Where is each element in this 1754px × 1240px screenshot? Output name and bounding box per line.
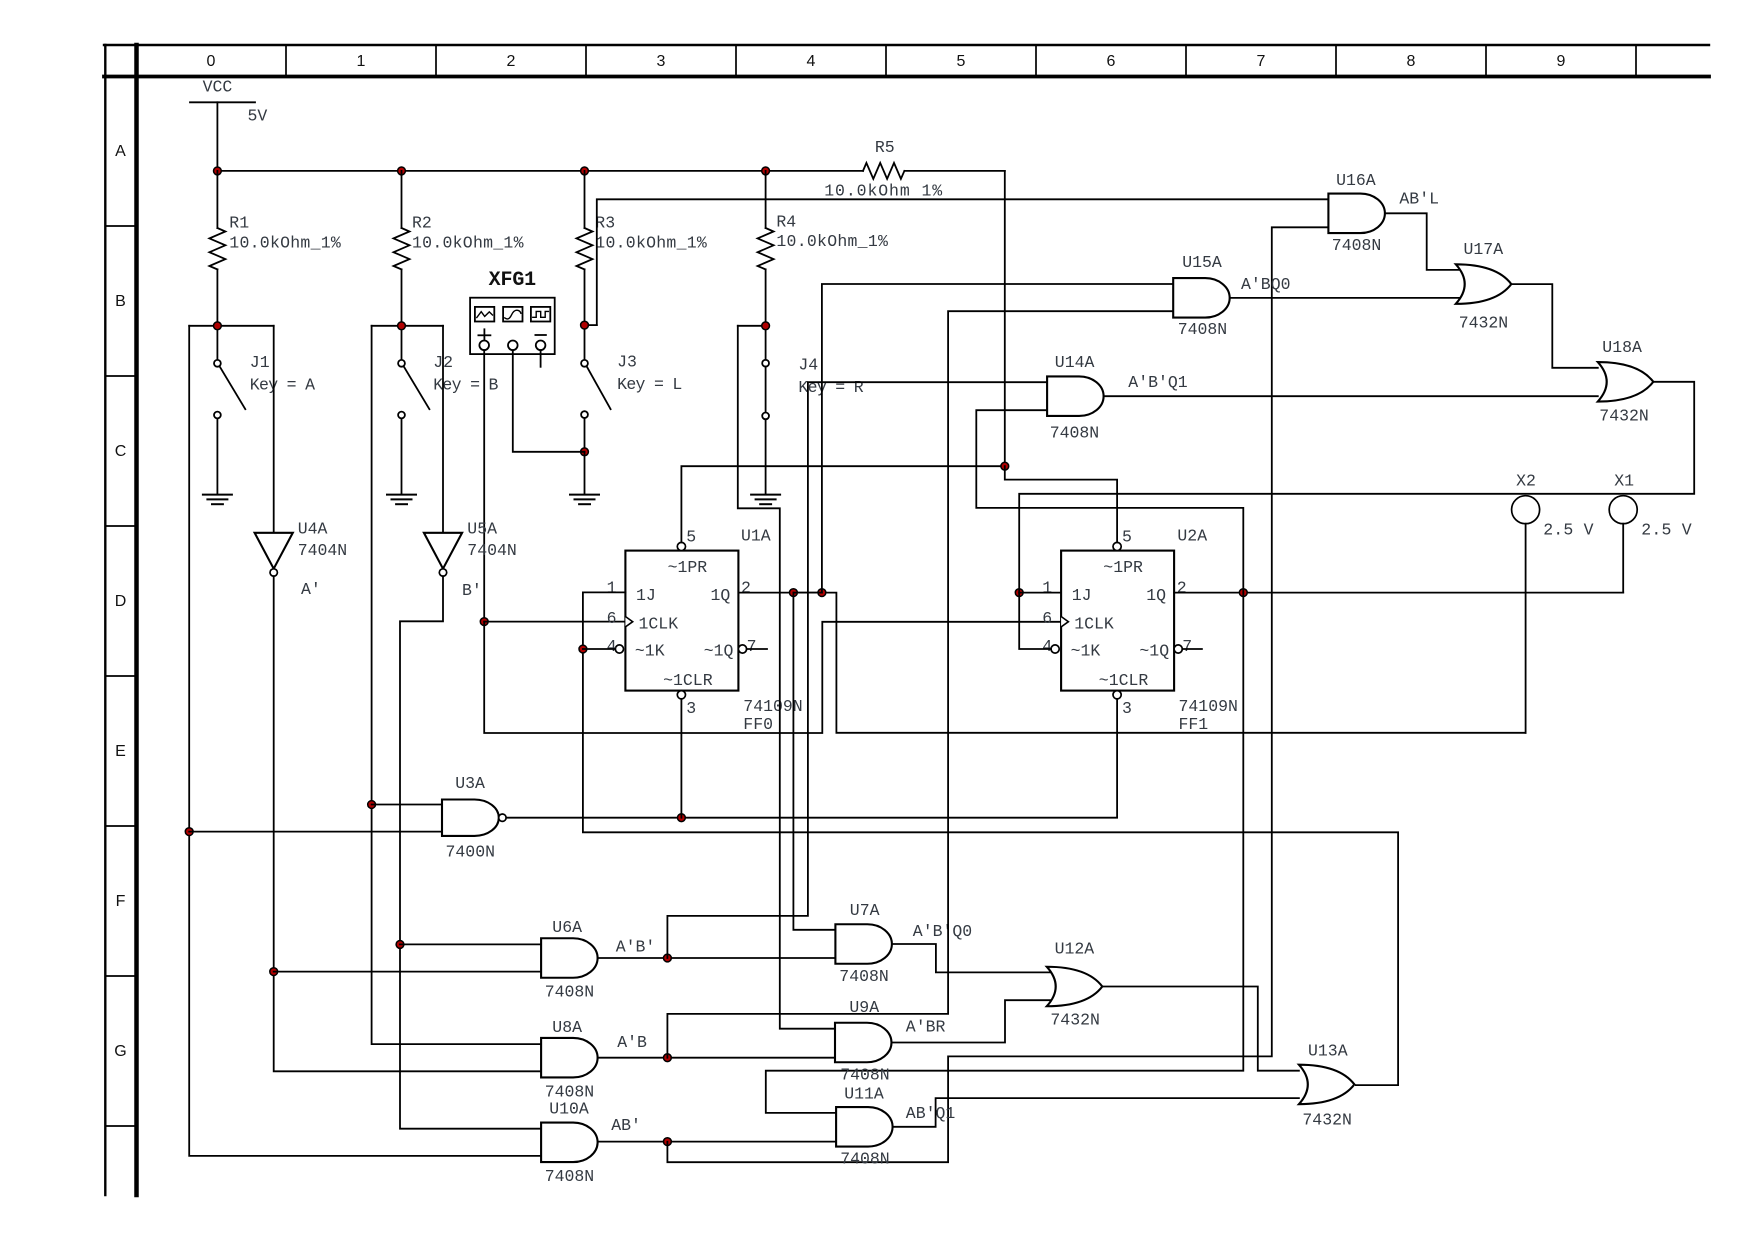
probe X2 <box>1512 472 1594 540</box>
ground (J4) <box>751 495 780 505</box>
junction J3 ground node <box>581 448 589 456</box>
svg-text:74109N: 74109N <box>1179 697 1238 716</box>
wire A rail J1 to U3A and U10A <box>189 326 541 1156</box>
junction clock node (XFG1/B') <box>480 618 488 626</box>
svg-text:1CLK: 1CLK <box>1074 614 1114 633</box>
svg-text:10.0kOhm_1%: 10.0kOhm_1% <box>776 232 888 251</box>
svg-text:~1Q: ~1Q <box>1139 642 1169 661</box>
junction J2 node B <box>398 322 406 330</box>
svg-text:3: 3 <box>1122 699 1132 718</box>
junction A rail to U3A input 2 <box>185 828 193 836</box>
svg-text:C: C <box>115 443 127 460</box>
svg-text:J4: J4 <box>798 356 818 375</box>
svg-text:7408N: 7408N <box>839 967 889 986</box>
svg-text:7: 7 <box>1257 53 1266 70</box>
svg-text:U16A: U16A <box>1336 171 1376 190</box>
wire L net J3 to U16A input 1 <box>597 199 1329 325</box>
svg-text:U4A: U4A <box>298 519 328 538</box>
OR gate U13A 7432N <box>1299 1042 1355 1130</box>
wire U12A out to U13A input 1 <box>1102 987 1299 1071</box>
wire U1A pin4 jog <box>583 648 615 650</box>
svg-text:9: 9 <box>1557 53 1566 70</box>
svg-text:7408N: 7408N <box>545 1167 595 1186</box>
svg-text:A'B: A'B <box>617 1033 647 1052</box>
svg-text:U12A: U12A <box>1055 940 1095 959</box>
svg-text:FF0: FF0 <box>743 715 773 734</box>
switch J4 (closed) <box>738 326 864 494</box>
svg-text:7408N: 7408N <box>840 1150 890 1169</box>
wire AB' net U10A out to U11A input 2 <box>599 1141 837 1143</box>
svg-text:X1: X1 <box>1614 472 1634 491</box>
svg-text:U14A: U14A <box>1055 353 1095 372</box>
svg-text:U10A: U10A <box>549 1099 589 1118</box>
svg-text:7432N: 7432N <box>1302 1111 1352 1130</box>
svg-text:VCC: VCC <box>203 78 233 97</box>
junction VCC-R2 <box>398 167 406 175</box>
switch J1 <box>189 326 315 494</box>
svg-text:8: 8 <box>1407 53 1416 70</box>
junction J3 node L <box>581 321 589 329</box>
svg-text:~1K: ~1K <box>1071 642 1101 661</box>
svg-text:2.5 V: 2.5 V <box>1641 521 1691 540</box>
junction T1/Q0J at U2A 1J <box>1015 589 1023 597</box>
svg-text:Key = A: Key = A <box>250 375 315 394</box>
svg-text:U7A: U7A <box>850 901 880 920</box>
svg-text:U11A: U11A <box>844 1084 884 1103</box>
wire XFG1 + terminal to clock node <box>483 350 485 621</box>
wire Q0 riser to U7A input 1 <box>793 593 835 930</box>
wire A' to U6A input 2 <box>274 971 541 973</box>
junction AB' node <box>664 1138 672 1146</box>
svg-text:4: 4 <box>807 53 816 70</box>
svg-text:U5A: U5A <box>467 519 497 538</box>
svg-text:A'B'Q1: A'B'Q1 <box>1128 373 1188 392</box>
wire U1A pin7 stub <box>747 648 767 650</box>
flip-flop U1A 74109N FF0 <box>615 526 802 734</box>
wire U15A out to U17A input 2 <box>1231 297 1462 299</box>
wire A'B riser to U15A input 2 <box>667 311 1173 1057</box>
svg-text:1CLK: 1CLK <box>639 614 679 633</box>
wire U2A 1J pin <box>1019 592 1061 594</box>
svg-text:7404N: 7404N <box>298 541 348 560</box>
svg-text:3: 3 <box>686 699 696 718</box>
wire R5 to PR net drop <box>1004 171 1006 466</box>
svg-text:U2A: U2A <box>1177 526 1207 545</box>
svg-text:3: 3 <box>657 53 666 70</box>
wire VCC bus <box>217 170 863 172</box>
wire R net J4 to U9A input 1 <box>738 326 835 1029</box>
wire A'B' net U6A out to U7A input 2 <box>599 957 836 959</box>
junction B rail to U3A input 1 <box>368 801 376 809</box>
svg-text:10.0kOhm 1%: 10.0kOhm 1% <box>824 181 942 200</box>
wire A'B' riser to U14A input 1 <box>667 382 1047 958</box>
OR gate U18A 7432N <box>1598 338 1654 426</box>
svg-text:R1: R1 <box>229 213 249 232</box>
svg-text:U17A: U17A <box>1464 240 1504 259</box>
svg-text:7404N: 7404N <box>467 541 517 560</box>
wire U2A pin7 stub <box>1182 648 1202 650</box>
AND gate U6A 7408N <box>541 918 598 1002</box>
wire U7A out to U12A input 1 <box>893 944 1053 972</box>
svg-text:G: G <box>114 1043 126 1060</box>
svg-text:2.5 V: 2.5 V <box>1543 521 1593 540</box>
resistor R1 <box>209 171 340 326</box>
svg-text:U13A: U13A <box>1308 1042 1348 1061</box>
resistor R2 <box>394 171 524 326</box>
wire Q1 riser down to U11A input 1 <box>766 593 1244 1113</box>
wire clock distribution to U2A 1CLK <box>484 622 1061 733</box>
svg-text:~1Q: ~1Q <box>704 642 734 661</box>
junction CLR net at U1A pin3 <box>678 814 686 822</box>
svg-text:J1: J1 <box>250 353 270 372</box>
svg-text:AB': AB' <box>611 1116 641 1135</box>
wire PR net jog to U2A pin5 <box>1005 466 1117 542</box>
junction VCC-R1 <box>214 167 222 175</box>
junction A' to U6A input 2 <box>270 968 278 976</box>
svg-text:1: 1 <box>357 53 366 70</box>
wire XFG1 COM terminal to J3 ground node <box>513 350 585 452</box>
svg-text:U8A: U8A <box>552 1018 582 1037</box>
AND gate U8A 7408N <box>541 1018 598 1102</box>
wire AB' branch to U16A input 2 <box>667 227 1328 1162</box>
power VCC <box>190 78 267 171</box>
AND gate U14A 7408N <box>1047 353 1104 442</box>
wire U9A out to U12A input 2 <box>893 1000 1053 1042</box>
svg-text:7408N: 7408N <box>1332 236 1382 255</box>
svg-text:U6A: U6A <box>552 918 582 937</box>
wire T1 net U18A out to U2A 1J/~1K <box>1019 382 1694 593</box>
wire XFG1 - terminal stub <box>540 350 542 367</box>
AND gate U11A 7408N <box>836 1084 893 1168</box>
wire U11A out to U13A input 2 <box>894 1098 1299 1127</box>
svg-text:U15A: U15A <box>1182 253 1222 272</box>
svg-text:E: E <box>115 743 126 760</box>
NAND gate U3A 7400N <box>442 774 506 862</box>
svg-text:R4: R4 <box>776 213 796 232</box>
svg-text:F: F <box>116 893 126 910</box>
svg-text:J3: J3 <box>617 353 637 372</box>
svg-text:R5: R5 <box>875 138 895 157</box>
wire U14A out to U18A input 2 <box>1105 395 1598 397</box>
resistor R3 <box>577 171 707 325</box>
ground (J2) <box>387 495 416 505</box>
switch J2 <box>372 326 499 494</box>
flip-flop U2A 74109N FF1 <box>1051 526 1238 734</box>
junction Q0 to U15A riser <box>818 589 826 597</box>
inverter U4A <box>255 519 348 576</box>
svg-text:7: 7 <box>747 637 757 656</box>
svg-text:1Q: 1Q <box>711 586 731 605</box>
svg-text:~1CLR: ~1CLR <box>1099 671 1149 690</box>
resistor R5 <box>824 138 1005 200</box>
svg-text:~1PR: ~1PR <box>668 558 708 577</box>
wire U1A pin3 lead <box>680 699 682 818</box>
svg-text:7: 7 <box>1182 637 1192 656</box>
wire B rail J2 to U3A and U8A <box>372 326 541 1044</box>
svg-text:4: 4 <box>607 637 617 656</box>
wire U16A out to U17A input 1 <box>1386 213 1462 270</box>
wire U2A pin4 jog <box>1019 593 1051 649</box>
svg-text:U1A: U1A <box>741 526 771 545</box>
svg-text:U3A: U3A <box>455 774 485 793</box>
svg-text:2: 2 <box>507 53 516 70</box>
svg-text:7432N: 7432N <box>1050 1011 1100 1030</box>
wire clock to U1A 1CLK <box>484 621 625 623</box>
wire PR net R5 to U1A pin5 and U2A pin5 <box>681 466 1004 542</box>
wire B' net U5A to U6A and U10A <box>400 576 541 1128</box>
svg-text:U18A: U18A <box>1602 338 1642 357</box>
wire T0 net U13A output to U1A 1J/~1K <box>583 592 1398 1085</box>
svg-text:4: 4 <box>1042 637 1052 656</box>
svg-text:0: 0 <box>207 53 216 70</box>
inverter U5A <box>424 519 517 576</box>
svg-text:7432N: 7432N <box>1599 407 1649 426</box>
svg-text:6: 6 <box>607 609 617 628</box>
svg-text:A: A <box>115 143 126 160</box>
svg-text:1Q: 1Q <box>1146 586 1166 605</box>
svg-text:7432N: 7432N <box>1459 313 1509 332</box>
svg-text:1: 1 <box>607 578 617 597</box>
svg-text:AB'Q1: AB'Q1 <box>906 1104 956 1123</box>
wire J1 to U4A input <box>273 326 275 533</box>
svg-text:B': B' <box>462 581 482 600</box>
wire Q0 net to U2A 1J <box>793 592 822 594</box>
AND gate U15A 7408N <box>1173 253 1229 339</box>
svg-text:A'B': A'B' <box>616 938 656 957</box>
wire ~CLR net U3A output to U1A pin3 and U2A pin3 <box>506 699 1117 818</box>
svg-text:XFG1: XFG1 <box>489 269 537 292</box>
function generator XFG1 <box>470 269 555 354</box>
svg-text:FF1: FF1 <box>1179 715 1209 734</box>
AND gate U7A 7408N <box>835 901 892 986</box>
svg-text:A': A' <box>301 580 321 599</box>
svg-text:~1CLR: ~1CLR <box>663 671 713 690</box>
wire J3 ground lead <box>584 452 586 494</box>
svg-text:B: B <box>115 293 126 310</box>
svg-text:6: 6 <box>1042 609 1052 628</box>
wire Q0 net U1A 1Q to X2 row <box>738 593 1525 733</box>
wire B' to U6A input 1 <box>400 943 541 945</box>
junction J4 node R <box>762 322 770 330</box>
svg-text:1J: 1J <box>636 586 656 605</box>
svg-text:5V: 5V <box>248 107 268 126</box>
junction VCC-R4 <box>762 167 770 175</box>
svg-text:7408N: 7408N <box>1178 320 1228 339</box>
svg-text:5: 5 <box>686 528 696 547</box>
svg-text:R3: R3 <box>595 213 615 232</box>
wire A' net U4A to U6A and U8A <box>274 576 541 1071</box>
svg-text:AB'L: AB'L <box>1399 190 1439 209</box>
AND gate U10A 7408N <box>541 1099 598 1186</box>
wire J2 to U5A input <box>442 326 444 533</box>
svg-text:1: 1 <box>1042 578 1052 597</box>
wire B to U3A input 1 <box>372 804 442 806</box>
svg-text:10.0kOhm_1%: 10.0kOhm_1% <box>229 234 341 253</box>
svg-text:10.0kOhm_1%: 10.0kOhm_1% <box>412 234 524 253</box>
wire X1 lead to Q1 row <box>1622 524 1624 593</box>
svg-text:~1PR: ~1PR <box>1103 558 1143 577</box>
svg-text:D: D <box>115 593 127 610</box>
svg-text:2: 2 <box>741 578 751 597</box>
resistor R4 <box>758 171 888 326</box>
wire X2 lead to Q0 row <box>1525 524 1527 733</box>
svg-text:A'BQ0: A'BQ0 <box>1241 275 1291 294</box>
wire Q1 riser up to U14A input 2 <box>976 410 1243 592</box>
svg-text:7408N: 7408N <box>1050 424 1100 443</box>
svg-text:2: 2 <box>1177 578 1187 597</box>
svg-text:U9A: U9A <box>849 998 879 1017</box>
junction J1 node A <box>214 322 222 330</box>
AND gate U16A 7408N <box>1328 171 1385 255</box>
junction B' to U6A input 1 <box>396 941 404 949</box>
wire U17A out to U18A input 1 <box>1511 284 1598 368</box>
svg-text:X2: X2 <box>1516 472 1536 491</box>
wire A to U3A input 2 <box>189 831 442 833</box>
junction A'B node <box>664 1054 672 1062</box>
svg-text:1J: 1J <box>1072 586 1092 605</box>
OR gate U12A 7432N <box>1047 940 1103 1030</box>
svg-text:5: 5 <box>957 53 966 70</box>
switch J3 <box>581 325 682 452</box>
svg-text:R2: R2 <box>412 213 432 232</box>
AND gate U9A 7408N <box>835 998 891 1084</box>
junction A'B' node <box>664 954 672 962</box>
junction PR net R5 drop <box>1001 462 1009 470</box>
svg-text:A'BR: A'BR <box>906 1018 946 1037</box>
junction VCC-R3 <box>581 167 589 175</box>
svg-text:6: 6 <box>1107 53 1116 70</box>
svg-text:~1K: ~1K <box>635 642 665 661</box>
svg-text:5: 5 <box>1122 528 1132 547</box>
svg-text:7408N: 7408N <box>840 1065 890 1084</box>
junction Q0 to U7A riser <box>790 589 798 597</box>
svg-text:7408N: 7408N <box>545 983 595 1002</box>
wire A'B net U8A out to U9A input 2 <box>599 1057 835 1059</box>
svg-text:10.0kOhm_1%: 10.0kOhm_1% <box>595 234 707 253</box>
svg-text:Key = L: Key = L <box>617 375 682 394</box>
junction Q1 node <box>1239 589 1247 597</box>
ground (J1) <box>203 495 232 505</box>
ground (J3) <box>570 495 599 505</box>
svg-text:7400N: 7400N <box>446 843 496 862</box>
wire Q1 net U2A 1Q to X1 <box>1174 592 1623 594</box>
wire Q0 riser to U15A input 1 <box>822 284 1173 593</box>
probe X1 <box>1609 472 1691 540</box>
junction T0 at U1A ~1K jog <box>579 645 587 653</box>
svg-text:A'B'Q0: A'B'Q0 <box>913 922 972 941</box>
OR gate U17A 7432N <box>1456 240 1512 332</box>
